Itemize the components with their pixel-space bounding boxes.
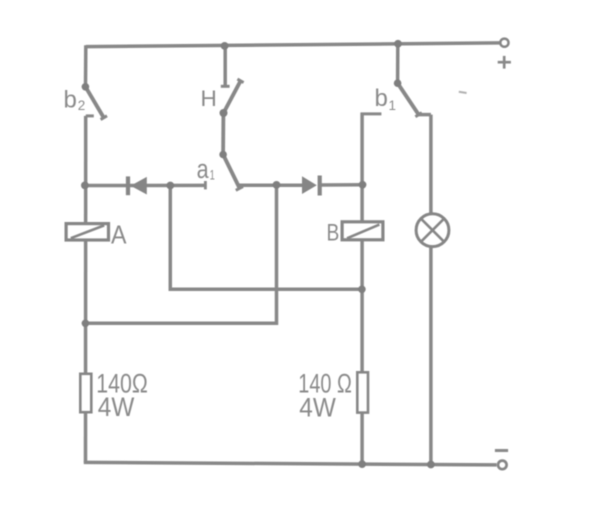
switch H blade [224, 81, 241, 113]
svg-text:1: 1 [210, 168, 215, 183]
svg-text:H: H [201, 86, 217, 111]
resistor R1 [80, 374, 91, 412]
node A2 (junction x=170) [166, 182, 174, 190]
scan artifact dash [459, 92, 467, 93]
diode D2 (pointing right) [302, 176, 320, 196]
wire bottom rail [84, 462, 497, 465]
wire left branch lower (b2 contact down to node, through relay A, to resistor R1, to bottom rail) [84, 116, 88, 463]
svg-text:a: a [197, 156, 210, 184]
wire B branch (b1 fixed contact down through relay B, resistor R2, to bottom rail) [360, 113, 364, 465]
wire a1 blade to diode D2 [239, 183, 303, 187]
switch H blade end tick [237, 79, 243, 83]
switch b1 fixed contact tick [361, 112, 381, 115]
wire diode D2 to node B1 [321, 183, 364, 187]
node B1 (junction on B branch) [359, 181, 367, 189]
wire H pivot to a1 pivot [221, 113, 225, 155]
wire top rail [86, 43, 500, 47]
svg-text:B: B [327, 220, 340, 247]
switch a1 fixed contact tick [204, 181, 207, 189]
node top rail / b1 [394, 40, 402, 48]
switch b1 blade end tick [415, 113, 421, 117]
node bottom rail / lamp branch [427, 461, 435, 469]
switch b2 blade [85, 87, 103, 118]
wire cross-connect 2 (node B2 down then left to A branch) [85, 185, 276, 323]
node b1 pivot [394, 79, 402, 87]
switch b2 fixed contact tick [86, 114, 94, 117]
svg-text:b: b [375, 85, 388, 112]
wire H feed (top rail down to H fixed contact) [223, 45, 227, 87]
wire lamp branch (down to bottom rail, through lamp) [429, 115, 433, 465]
switch b2 blade end tick [101, 116, 107, 120]
switch a1 blade [223, 155, 240, 189]
wire cross-connect 1 (node A2 down then right to B branch) [170, 186, 362, 290]
node B2 (junction x=276) [273, 181, 281, 189]
svg-text:1: 1 [389, 98, 397, 113]
node H pivot [220, 109, 228, 117]
node top rail / H [221, 42, 229, 50]
svg-text:2: 2 [78, 98, 86, 113]
node a1 pivot [219, 151, 227, 159]
lamp E1 [416, 214, 449, 247]
node bottom rail / B branch [358, 460, 366, 468]
relay coil B [342, 222, 383, 240]
wire left branch upper (top rail to b2 pivot) [84, 45, 88, 87]
terminal - (negative) [495, 451, 508, 470]
svg-text:A: A [111, 220, 127, 250]
resistor R2 [357, 372, 368, 412]
svg-text:b: b [64, 87, 77, 114]
relay coil A [66, 224, 108, 240]
switch H fixed contact foot [221, 85, 230, 88]
switch a1 blade end tick [236, 187, 243, 191]
svg-text:4W: 4W [299, 392, 336, 422]
terminal + (positive) [498, 39, 511, 69]
node A3 (A branch / cross-connect 2) [82, 320, 90, 328]
node A1 (left junction on horizontal wire) [81, 182, 89, 190]
node b2 pivot [82, 83, 90, 91]
diode D1 (pointing left) [128, 176, 147, 195]
node B3 (B branch / cross-connect 1) [358, 286, 366, 294]
wire main horizontal left (node A1 to a1 fixed contact) [84, 184, 205, 188]
wire b1 feed (top rail down to b1 pivot) [396, 44, 400, 84]
svg-text:4W: 4W [98, 392, 135, 422]
switch b1 blade [398, 83, 419, 115]
wire b1 blade to lamp branch elbow [417, 113, 431, 117]
